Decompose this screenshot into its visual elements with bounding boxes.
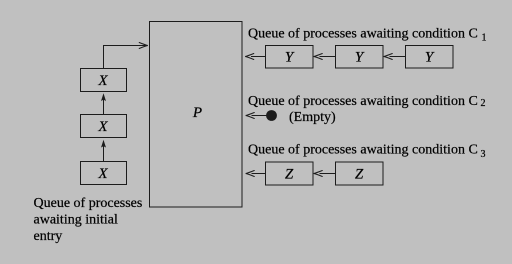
svg-text:(Empty): (Empty) bbox=[289, 110, 336, 125]
svg-text:Queue of processes awaiting co: Queue of processes awaiting condition C bbox=[248, 27, 478, 42]
svg-text:1: 1 bbox=[482, 32, 487, 43]
svg-text:entry: entry bbox=[34, 229, 63, 244]
svg-text:3: 3 bbox=[481, 149, 486, 160]
svg-text:awaiting initial: awaiting initial bbox=[34, 213, 118, 228]
svg-text:X: X bbox=[97, 119, 108, 135]
svg-text:X: X bbox=[97, 73, 108, 89]
svg-text:Z: Z bbox=[285, 167, 294, 183]
svg-text:P: P bbox=[192, 105, 202, 121]
svg-text:Queue of processes: Queue of processes bbox=[34, 196, 143, 211]
svg-text:Queue of processes awaiting co: Queue of processes awaiting condition C bbox=[248, 94, 478, 109]
svg-text:Y: Y bbox=[285, 50, 295, 66]
svg-text:Queue of processes awaiting co: Queue of processes awaiting condition C bbox=[248, 143, 478, 158]
svg-text:Z: Z bbox=[355, 167, 364, 183]
svg-text:Y: Y bbox=[425, 50, 435, 66]
svg-text:Y: Y bbox=[355, 50, 365, 66]
svg-text:X: X bbox=[97, 166, 108, 182]
svg-text:2: 2 bbox=[481, 98, 486, 109]
